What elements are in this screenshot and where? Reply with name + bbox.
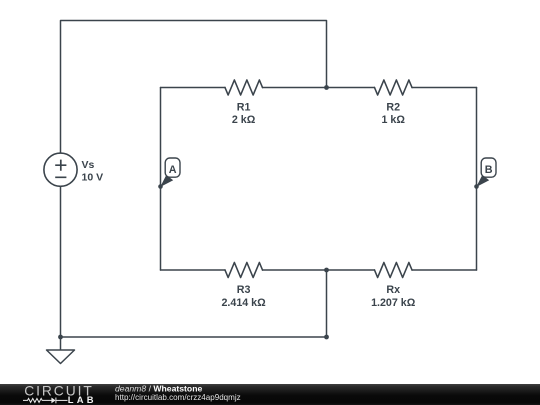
wire bridge top-left segment [161, 87, 226, 89]
svg-text:Rx: Rx [386, 284, 400, 296]
wire bridge right side (node B wire) [476, 88, 478, 271]
svg-text:R1: R1 [237, 101, 251, 113]
svg-text:Vs: Vs [82, 159, 95, 171]
wire source bottom to rail [60, 186, 62, 337]
wire bridge top-right segment [412, 87, 477, 89]
svg-text:A: A [169, 164, 177, 176]
wire bridge bottom-middle segment [263, 269, 375, 271]
svg-text:LAB: LAB [68, 394, 97, 405]
CircuitLab logo [23, 384, 97, 405]
wire bridge bottom node to ground rail [326, 270, 328, 337]
wire bridge left side (node A wire) [160, 88, 162, 271]
svg-text:1 kΩ: 1 kΩ [381, 114, 405, 126]
svg-text:2.414 kΩ: 2.414 kΩ [221, 297, 266, 309]
svg-text:1.207 kΩ: 1.207 kΩ [371, 297, 416, 309]
node A flag [158, 158, 180, 189]
wire top rail from source to mid node [61, 21, 327, 154]
resistor R2 1 kOhm [375, 80, 413, 126]
wire bottom rail [61, 336, 327, 338]
voltage source Vs 10 V [44, 153, 103, 186]
junction bottom mid node [324, 268, 329, 273]
junction top mid node [324, 85, 329, 90]
svg-text:2 kΩ: 2 kΩ [232, 114, 256, 126]
svg-text:R3: R3 [237, 284, 251, 296]
resistor R1 2 kOhm [225, 80, 263, 126]
wire bridge top-middle segment [263, 87, 375, 89]
junction bottom rail left (ground) [58, 335, 63, 340]
footer bar [0, 384, 540, 405]
junction bottom rail right end [324, 335, 329, 340]
resistor R3 2.414 kOhm [221, 263, 266, 310]
wire bridge bottom-left segment [161, 269, 226, 271]
svg-text:R2: R2 [386, 101, 400, 113]
svg-text:http://circuitlab.com/crzz4ap9: http://circuitlab.com/crzz4ap9dqmjz [115, 393, 241, 402]
wire bridge bottom-right segment [412, 269, 477, 271]
footer text [115, 384, 241, 402]
svg-text:B: B [485, 164, 493, 176]
resistor Rx 1.207 kOhm [371, 263, 416, 310]
ground [47, 337, 75, 364]
svg-text:10 V: 10 V [82, 171, 104, 183]
node B flag [474, 158, 496, 189]
